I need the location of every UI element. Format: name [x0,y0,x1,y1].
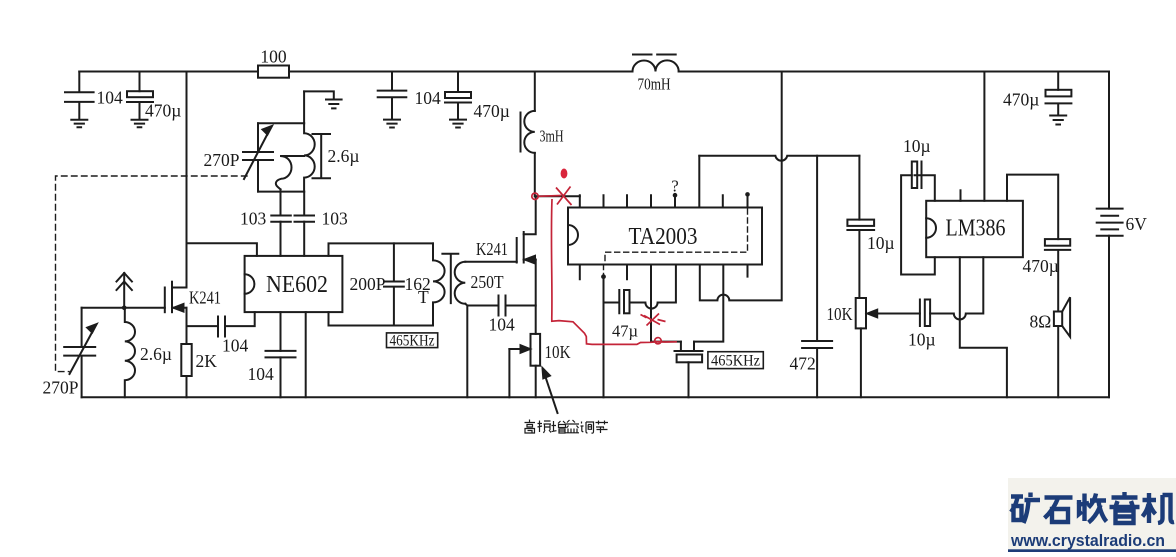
red annotation path [532,187,677,345]
wire TA2003 pin to resonator [651,265,681,342]
wire winding tap [281,155,304,157]
logo char yin [1110,492,1140,523]
svg-text:?: ? [671,177,678,196]
svg-text:472: 472 [790,354,816,374]
boxed label 465KHz det [708,352,763,369]
wire 250T top to Q2 gate [465,261,516,263]
logo char ji [1143,493,1175,523]
capacitor C 104 top-left [65,72,94,120]
svg-text:K241: K241 [476,239,508,259]
ground [326,100,342,109]
capacitor 10u input [919,300,921,327]
capacitor 470u supply electrolytic [1057,72,1059,90]
svg-text:2.6µ: 2.6µ [140,344,172,364]
svg-text:104: 104 [489,315,516,335]
IC U3 LM386 box [926,201,1023,257]
inductor 70mH [633,60,679,71]
svg-text:47µ: 47µ [612,322,638,341]
svg-text:K241: K241 [189,288,221,308]
wire NE602 input pin elbow to drain line [187,243,257,256]
pin stubs TA2003 top [580,194,748,207]
svg-text:103: 103 [322,209,349,229]
node antenna junction [122,306,127,311]
svg-text:104: 104 [415,88,442,108]
boxed label 465KHz IF [387,333,764,369]
capacitor 104 IF coupling [499,296,506,316]
oscillator tank: wire from rail [303,91,305,123]
coil extent bar 2.6u [313,134,331,178]
pin stub LM386 top [960,190,962,201]
gain loop left-bottom [901,175,935,274]
arrow of 270P antenna [70,332,93,375]
wire 2K to rail [186,376,188,397]
IC U2 TA2003 box [568,208,762,265]
resistor 10K pot [531,334,541,366]
svg-text:2K: 2K [196,351,218,371]
op-amp U1 NE602 box [245,256,343,312]
char zeng [552,421,566,433]
wire AGC line with hop [699,156,859,161]
variable capacitor 270P antenna [64,308,95,398]
wire top rail middle segment [289,71,633,73]
core bar [442,254,458,303]
wire NE602 to IF filter top [329,243,434,256]
capacitor 104 gate-coupling [218,317,225,337]
wire wiper to 10u input [900,313,920,315]
red blob [561,169,568,179]
wire NE602 pin to rail [305,312,307,397]
svg-text:LM386: LM386 [946,216,1006,242]
wire pot to rail [535,366,537,398]
wire osc to cap 103 a [280,189,282,215]
wiper arrow 10K [509,348,522,350]
svg-text:270P: 270P [204,150,240,170]
wire pot to rail [860,328,862,397]
ground [384,120,400,128]
ground [450,120,466,128]
wire 104 to Q2 source line [506,305,536,307]
capacitor 470u top-left electrolytic [139,72,141,92]
svg-text:TA2003: TA2003 [629,224,698,250]
wire bottom ground rail [82,396,1109,398]
dashed internal path TA2003 [604,209,748,275]
logo char shi [1045,498,1073,523]
svg-text:10µ: 10µ [903,136,931,156]
char gao [525,420,536,434]
svg-text:470µ: 470µ [145,101,181,121]
inductor antenna coil 2.6u [125,308,135,398]
wire NE602 to IF filter bottom [329,312,434,325]
capacitor 200P [384,243,404,325]
inductor osc main winding [304,123,315,191]
node dot pin top b [745,192,750,197]
svg-text:104: 104 [97,88,124,108]
gain loop with 10u [915,175,935,201]
svg-text:70mH: 70mH [638,75,671,94]
svg-text:270P: 270P [43,378,79,398]
pin stubs TA2003 bottom [580,265,748,280]
svg-text:103: 103 [240,209,267,229]
wire battery to bottom rail [1108,236,1110,398]
svg-text:2.6µ: 2.6µ [328,146,360,166]
variable capacitor 270P osc (in left edge) [243,123,273,191]
svg-text:T: T [418,287,429,307]
resistor 100 [258,66,289,78]
wire 47u to pin with hop [630,265,676,309]
wire junction to TA2003 pin1 [535,195,580,197]
node dot pin top [673,193,678,198]
resistor 10K volume pot [856,298,866,328]
drain lead [524,196,536,234]
notch LM386 [926,218,936,238]
svg-text:200P: 200P [350,274,386,294]
wire LM386 output pin to cap [1007,175,1058,240]
svg-text:470µ: 470µ [474,101,510,121]
char jie [596,421,609,434]
resonator 465KHz [675,342,703,351]
arrow of 270P osc [244,133,268,179]
battery 6V [1097,209,1123,236]
capacitor 47u electrolytic [604,290,620,313]
capacitor 10u gain [912,162,917,189]
inductor 162T primary [433,243,445,325]
logo char kuang [1011,493,1040,524]
notch TA2003 [568,225,578,245]
svg-text:www.crystalradio.cn: www.crystalradio.cn [1010,532,1165,550]
notch NE602 [245,274,255,294]
ground [1050,116,1066,125]
ground [71,120,87,127]
capacitor 103 b [295,216,315,222]
source lead with arrow [172,307,187,309]
wire source down [186,308,188,344]
capacitor 472 [802,341,832,397]
wire cap103a to NE602 [280,222,282,256]
svg-text:100: 100 [260,47,287,67]
wire speaker to rail [1057,326,1059,397]
wire AGC junction to 472 [816,156,818,341]
wire top rail right segment [679,71,1109,73]
wire osc to cap 103 b [303,192,305,216]
annotation text gao-pin-zeng-yi-tiao-jie (CJK strokes) [525,420,609,434]
arrow annotation to pot [546,377,558,413]
wire cap103b to NE602 [303,222,305,256]
logo bottom band [1008,549,1176,552]
svg-text:470µ: 470µ [1023,256,1059,276]
wire LM386 gnd pin [960,257,1007,397]
wire top supply rail left segment [79,71,258,73]
svg-text:10µ: 10µ [867,233,895,253]
logo block [1008,478,1176,552]
logo char shou [1077,494,1107,523]
transistor Q2 K241 [516,238,518,263]
tank box bottom edge [258,191,304,193]
svg-text:250T: 250T [471,272,504,292]
node dot pin2 [601,274,606,279]
capacitor 103 a [271,216,291,222]
capacitor 470u output electrolytic [1045,239,1070,246]
antenna [123,273,125,308]
svg-text:3mH: 3mH [540,127,564,146]
wire resonator right to TA2003 pin with hop [694,265,723,342]
inductor 250T secondary [455,262,466,304]
resistor 2K [181,344,191,376]
wiper arrow 10K volume [875,313,900,315]
inductor osc feedback winding [276,156,292,189]
drain lead [172,287,187,289]
svg-text:NE602: NE602 [266,272,328,298]
wire drain supply line [186,72,188,288]
wire to ground [304,91,334,99]
svg-text:470µ: 470µ [1003,90,1039,110]
wire 10u to LM386 pin with hop [930,257,983,319]
tank box top edge [258,122,304,124]
svg-text:10µ: 10µ [908,330,936,350]
wire TA2003 Vcc pin to rail-top [700,72,782,301]
wire wiper to rail [508,349,510,397]
wire cap104 to NE602 [225,312,255,326]
wire source down to pot [535,260,537,334]
svg-text:465KHz: 465KHz [390,332,435,349]
wire NE602 pin to 104 bypass [280,312,282,351]
char tiao [581,422,594,434]
char yi [566,420,580,433]
wire LM386 Vcc pin to rail [983,72,985,201]
source lead with arrow [524,259,536,261]
dashed gang line [56,176,248,372]
capacitor 10u AGC electrolytic [858,156,860,220]
wire TA2003 supply pin up [698,156,700,208]
wire right edge to battery [1108,72,1110,209]
wire source node to cap104 [187,325,219,327]
wire 250T bottom node [465,304,498,398]
svg-text:104: 104 [248,364,275,384]
svg-text:6V: 6V [1126,214,1148,234]
capacitor 104 under NE602 [266,351,296,358]
wire TA2003 pin2 to rail [603,276,605,397]
wire antenna node [82,307,165,309]
transistor Q1 K241 [164,288,166,313]
svg-text:10K: 10K [545,342,571,362]
inductor 3mH [534,72,536,111]
svg-text:8Ω: 8Ω [1030,312,1052,332]
capacitor 470u mid-top electrolytic [457,72,459,93]
speaker 8ohm [1054,312,1062,327]
wire 104 to rail [280,357,282,397]
capacitor C 104 mid-top [378,72,407,120]
svg-text:10K: 10K [827,304,853,324]
char pin [538,421,552,434]
ground [132,120,148,127]
svg-text:104: 104 [222,336,249,356]
svg-text:465KHz: 465KHz [711,353,760,370]
